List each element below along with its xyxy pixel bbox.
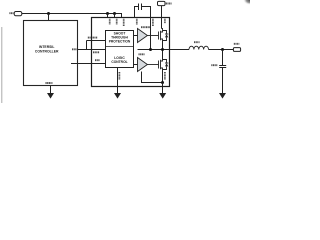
- wire: PWM from controller to logic box: [78, 49, 106, 51]
- inductor LOUT: [189, 46, 209, 49]
- label COUT: [211, 64, 217, 66]
- wire: inductor to output: [209, 49, 234, 51]
- pin label BOOT (vertical): [136, 19, 138, 25]
- wire: controller ground lead: [50, 86, 52, 94]
- pin label PWM on controller: [72, 48, 77, 50]
- pin label GND on controller: [46, 82, 53, 84]
- wire: PGND lead through IC bottom: [162, 83, 164, 94]
- divider between protection and logic sections: [106, 46, 134, 48]
- ground (PGND): [159, 93, 166, 99]
- wire: jog up to SMOD: [86, 41, 88, 50]
- label VCC (input supply): [9, 12, 13, 14]
- faint page-crop border line (left): [1, 27, 3, 103]
- capacitor CBOOT (bootstrap): [138, 4, 140, 11]
- wire: rail drop to IC pin1: [107, 14, 109, 18]
- wire: rail drop to IC pin2: [114, 14, 116, 18]
- pin label PGND (vertical): [164, 72, 166, 80]
- wire: driver return along bottom: [142, 72, 163, 83]
- node: dot switch vertical joins switch wire: [161, 48, 164, 51]
- node: dot phase joins switch wire: [149, 48, 152, 51]
- pin label VDRV (vertical): [123, 19, 125, 26]
- wire: switch/phase horizontal out of IC: [138, 49, 190, 51]
- wire: protection box to upper driver: [134, 35, 138, 37]
- wire: EN from controller to logic box: [71, 63, 106, 65]
- svg-text:CONTROLLER: CONTROLLER: [35, 50, 59, 54]
- wire: VIN terminal down to IC / high FET drain: [161, 6, 163, 18]
- controller box U2: [24, 21, 78, 86]
- pin label EN: [95, 59, 100, 61]
- input terminal (stadium): [14, 12, 22, 16]
- wire: SMOD into protection box: [87, 40, 106, 42]
- node: junction dot pin2: [113, 12, 116, 15]
- label VOUT: [234, 43, 240, 45]
- wire: boot cap left lead to BOOT pin: [135, 7, 139, 18]
- op IC box U1 (power stage): [92, 18, 170, 87]
- wire: logic box to lower driver: [134, 64, 138, 66]
- node: dot pgnd junction: [161, 81, 164, 84]
- wire: cap to ground: [222, 68, 224, 94]
- node: junction dot at controller supply drop: [47, 12, 50, 15]
- ground (output): [219, 93, 226, 99]
- wire: rail end bend into IC pin3: [121, 13, 123, 18]
- wire: VIN pin to Q1 drain: [161, 18, 163, 29]
- block: shoot-through protection / logic control box: [106, 31, 134, 68]
- wire: AGND lead from logic box: [117, 68, 119, 94]
- corner artifact blob (top right): [0, 0, 1, 1]
- op-amp lower gate driver: [138, 58, 148, 72]
- node: junction dot pin1: [106, 12, 109, 15]
- terminal +VIN (top right): [158, 1, 166, 5]
- op-amp upper gate driver: [138, 29, 148, 43]
- pin label VCC (vertical): [109, 19, 111, 25]
- svg-text:INTERSIL: INTERSIL: [39, 45, 54, 49]
- wire: drop from rail to controller box top: [48, 14, 50, 21]
- wire: VCC rail across top: [22, 13, 122, 15]
- ground (controller): [47, 93, 54, 99]
- label LGATE: [139, 53, 145, 55]
- label LOUT: [194, 41, 200, 43]
- pin label VIN (vertical): [164, 19, 166, 24]
- svg-text:PROTECTION: PROTECTION: [109, 40, 131, 44]
- wire: boot cap right lead to PHASE pin: [142, 7, 151, 18]
- transistor Q1 (high-side MOSFET): [147, 31, 168, 41]
- wire: output junction down to cap: [222, 50, 224, 66]
- pin label AGND (vertical): [118, 72, 120, 80]
- wire: phase pin down to switch wire: [150, 18, 152, 50]
- pin label SMOD: [88, 37, 98, 39]
- terminal VOUT (stadium): [233, 48, 240, 52]
- label +VIN: [166, 3, 172, 5]
- svg-text:CONTROL: CONTROL: [111, 60, 127, 64]
- pin label PHASE (vertical): [152, 19, 154, 27]
- pin label PWM (inside IC): [93, 51, 100, 53]
- node: dot output junction: [221, 48, 224, 51]
- wire: switch node vertical Q1 source to Q2 drain: [162, 41, 164, 60]
- ground (AGND): [114, 93, 121, 99]
- capacitor COUT: [219, 65, 226, 67]
- pin label VDD (vertical): [116, 19, 118, 25]
- wire: Q2 source down to pgnd junction: [162, 70, 164, 83]
- transistor Q2 (low-side MOSFET): [147, 60, 168, 70]
- label UGATE: [141, 26, 150, 28]
